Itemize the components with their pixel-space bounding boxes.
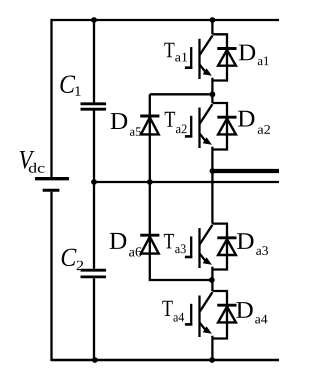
diode Da4 (217, 305, 236, 322)
label Da6 (110, 233, 142, 257)
capacitor C1 (81, 104, 107, 109)
diode Da1 (217, 49, 236, 66)
node top-main (210, 17, 216, 23)
label Da3 (237, 233, 268, 255)
left source rail lower wire (50, 192, 52, 361)
diode Da2 (217, 117, 236, 134)
clamping diode Da5 (140, 116, 159, 134)
label Da1 (239, 45, 269, 66)
capacitor rail middle wire (93, 111, 95, 269)
node Ta1-Ta2 junction (210, 91, 216, 97)
bottom dc bus wire (52, 359, 280, 362)
label C2 (62, 249, 83, 271)
neutral rail wire (94, 181, 279, 183)
dc source Vdc (35, 179, 69, 191)
clamp wire upper node (150, 93, 213, 95)
clamp branch wire Da5/Da6 (150, 94, 212, 280)
label Da4 (236, 302, 267, 323)
label Ta1 (164, 43, 187, 62)
node Ta3-Ta4 junction (209, 277, 215, 283)
output phase wire (212, 169, 279, 173)
transistor Ta4 (185, 291, 227, 339)
diode Da3 (217, 238, 236, 255)
node neutral-cap (91, 179, 97, 185)
main rail wire segments (211, 20, 213, 360)
label Da5 (111, 113, 141, 136)
left source rail upper wire (50, 19, 52, 177)
node output (210, 168, 216, 174)
node bottom-main (209, 357, 215, 363)
transistor Ta1 (185, 34, 227, 80)
label Vdc (20, 151, 45, 173)
clamping diode Da6 (140, 235, 159, 253)
node bottom-cap (92, 357, 98, 363)
top dc bus wire (52, 19, 280, 21)
transistor Ta3 (185, 224, 227, 270)
capacitor C2 (81, 270, 107, 277)
node top-cap (91, 17, 97, 23)
label Ta2 (165, 112, 187, 134)
label C1 (60, 76, 80, 96)
label Ta3 (164, 234, 186, 253)
capacitor rail upper wire (93, 20, 95, 102)
capacitor rail lower wire (93, 278, 95, 360)
label Da2 (238, 111, 270, 134)
transistor Ta2 (185, 103, 227, 150)
label Ta4 (162, 301, 184, 322)
node neutral-clamp (147, 179, 153, 185)
